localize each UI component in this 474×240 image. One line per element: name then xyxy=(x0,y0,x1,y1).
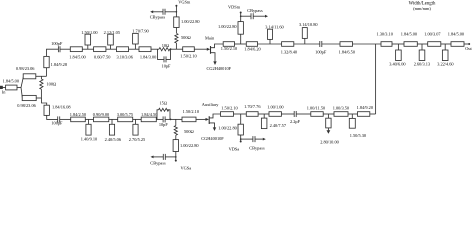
TL TL15 1.84/6.50 xyxy=(339,42,355,55)
wire TL11 to TL13 (VDSm node) xyxy=(235,43,247,45)
capacitor C3 CBypass (VGSm) xyxy=(150,9,178,20)
TL TL31 1.00/11.50 xyxy=(307,106,325,117)
svg-text:1.30/3.10: 1.30/3.10 xyxy=(376,31,392,36)
wire TL25 to Q2 gate xyxy=(196,118,206,120)
TL TL33 1.84/9.20 xyxy=(357,105,373,116)
svg-text:2.80/10.00: 2.80/10.00 xyxy=(320,139,339,144)
wire TL12 up to VDSm terminal xyxy=(240,13,242,22)
svg-text:1.70/7.90: 1.70/7.90 xyxy=(132,29,148,34)
svg-text:10pF: 10pF xyxy=(162,63,172,68)
svg-text:1.00/22.80: 1.00/22.80 xyxy=(180,143,199,148)
wire lower splitter jog to TL20 xyxy=(42,98,47,105)
TL TL2 0.98/23.06 (upper splitter arm) xyxy=(16,66,36,79)
wire TL13 to TL14 xyxy=(258,43,282,45)
svg-text:1.84/2.50: 1.84/2.50 xyxy=(70,112,86,117)
junction node gate aux xyxy=(170,119,172,121)
TL TL12 1.00/22.80 (main drain bias, vertical) xyxy=(218,22,243,44)
wire TL19 to Out xyxy=(464,43,469,45)
capacitor C6 100pF (aux input DC block) xyxy=(51,116,63,125)
svg-text:CGH40010F: CGH40010F xyxy=(201,136,224,141)
wire TL24 to RC2 xyxy=(155,118,158,120)
svg-text:CG2H40010F: CG2H40010F xyxy=(206,66,231,71)
svg-text:0.98/23.06: 0.98/23.06 xyxy=(17,103,36,108)
svg-text:1.50/2.10: 1.50/2.10 xyxy=(180,54,196,59)
wire TL21 to TL22 xyxy=(85,118,93,120)
capacitor C1 100pF (main input DC block) xyxy=(51,41,63,52)
wire TL28 down to VDSa terminal xyxy=(240,135,242,142)
wire TL33 to combining riser xyxy=(370,113,376,115)
svg-text:100pF: 100pF xyxy=(51,41,63,46)
svg-text:Auxiliary: Auxiliary xyxy=(202,102,219,107)
wire TL17 to TL18 xyxy=(417,43,427,45)
resistor R4 15ohm (parallel loop above aux line) xyxy=(157,100,170,119)
svg-text:VDSm: VDSm xyxy=(228,4,241,9)
wire TL8 to RC network xyxy=(151,48,159,50)
svg-text:2.70/5.25: 2.70/5.25 xyxy=(129,137,145,142)
TL TL20 1.84/16.08 (vertical) xyxy=(44,104,71,115)
svg-text:Out: Out xyxy=(465,46,472,51)
TL TL17 1.84/5.00 xyxy=(401,31,418,46)
TL TL13 1.84/6.20 xyxy=(244,42,260,52)
svg-text:CBypass: CBypass xyxy=(150,161,166,166)
TL TL11 1.50/2.10 (main drain) xyxy=(221,42,237,52)
svg-text:1.50/2.10: 1.50/2.10 xyxy=(221,106,237,111)
svg-text:1.84/6.50: 1.84/6.50 xyxy=(339,50,355,55)
wire TL30 to C10 xyxy=(281,113,294,115)
wire TL1 to split node xyxy=(17,87,21,89)
wire TL6 to TL7 xyxy=(106,48,117,50)
node VDSa terminal xyxy=(229,141,242,152)
wire C1 to TL5 xyxy=(60,48,70,50)
svg-text:3.14/11.60: 3.14/11.60 xyxy=(265,24,283,29)
resistor R1 100ohm isolation xyxy=(40,76,56,98)
svg-text:100pF: 100pF xyxy=(315,50,327,55)
wire TL9 to Q1 gate xyxy=(194,48,207,50)
svg-text:VGSm: VGSm xyxy=(178,0,191,4)
TL TL29 1.70/7.76 xyxy=(244,104,261,116)
port In xyxy=(0,86,6,94)
capacitor C10 2.2pF xyxy=(290,111,301,124)
svg-text:2.40/5.06: 2.40/5.06 xyxy=(105,137,122,142)
svg-text:2.40/7.57: 2.40/7.57 xyxy=(270,123,287,128)
svg-text:VDSa: VDSa xyxy=(229,146,240,151)
svg-text:3.14/10.80: 3.14/10.80 xyxy=(299,22,318,27)
TL TL27 1.50/2.10 (aux drain) xyxy=(221,106,238,117)
capacitor C4 CBypass (VDSm) xyxy=(240,8,268,19)
TL TL4 1.84/9.28 (vertical) xyxy=(44,56,67,67)
svg-text:0.90/9.00: 0.90/9.00 xyxy=(93,112,109,117)
TL TL24 1.84/4.50 xyxy=(141,112,157,122)
wire TL16 to TL17 xyxy=(392,43,404,45)
svg-text:1.32/8.40: 1.32/8.40 xyxy=(281,50,297,55)
wire node to TL9 xyxy=(171,48,183,50)
TL stub ST1 1.50/1.00 (shunt up) xyxy=(81,30,97,49)
wire TL23 to TL24 xyxy=(133,118,142,120)
TL TL3 0.98/23.06 (lower splitter arm) xyxy=(17,95,36,108)
svg-text:500Ω: 500Ω xyxy=(184,129,194,134)
svg-text:2.60/3.13: 2.60/3.13 xyxy=(414,62,430,67)
TL stub ST9 1.40/9.10 (shunt down) xyxy=(81,119,97,141)
svg-text:1.84/5.00: 1.84/5.00 xyxy=(401,31,417,36)
svg-text:100Ω: 100Ω xyxy=(47,82,57,87)
svg-text:1.00/22.80: 1.00/22.80 xyxy=(218,24,237,29)
svg-text:2.2pF: 2.2pF xyxy=(290,119,301,124)
wire split diagonal lower xyxy=(21,88,22,99)
wire C10 to TL31 xyxy=(296,113,311,115)
svg-text:1.84/6.20: 1.84/6.20 xyxy=(244,46,260,51)
svg-text:1.84/4.50: 1.84/4.50 xyxy=(141,112,157,117)
svg-text:1.84/16.08: 1.84/16.08 xyxy=(52,104,71,109)
svg-text:1.50/2.10: 1.50/2.10 xyxy=(221,46,237,51)
TL stub ST6 3.40/6.00 (shunt down) xyxy=(389,44,405,67)
svg-text:1.00/11.50: 1.00/11.50 xyxy=(307,106,325,111)
TL TL8 1.84/3.00 xyxy=(139,47,156,60)
svg-text:1.00/22.80: 1.00/22.80 xyxy=(218,125,237,130)
TL TL18 1.00/3.07 xyxy=(424,31,441,46)
title Width/Length (mm/mm) xyxy=(409,1,436,11)
capacitor C9 CBypass (VDSa) xyxy=(240,136,266,151)
svg-text:3.00/5.75: 3.00/5.75 xyxy=(117,112,133,117)
wire lower arm to corner xyxy=(36,97,41,99)
resistor R3 500ohm (main gate bias) xyxy=(175,28,191,50)
svg-text:15Ω: 15Ω xyxy=(160,100,168,105)
wire TL26 down to VGSa terminal xyxy=(175,152,177,161)
svg-text:1.50/2.10: 1.50/2.10 xyxy=(183,109,199,114)
node VGSm terminal xyxy=(175,0,190,7)
TL TL5 1.84/5.00 xyxy=(69,47,85,60)
svg-text:In: In xyxy=(2,90,6,95)
svg-text:3.40/6.00: 3.40/6.00 xyxy=(389,62,405,67)
transistor Q1 CGH40010F Main xyxy=(205,35,232,71)
node VDSm terminal xyxy=(228,4,242,13)
svg-text:1.84/9.28: 1.84/9.28 xyxy=(51,62,67,67)
TL TL10 1.00/22.80 (main gate bias line, vertical) xyxy=(174,17,200,28)
TL stub ST7 2.60/3.13 (shunt down) xyxy=(414,44,430,67)
svg-text:CBypass: CBypass xyxy=(150,15,166,20)
svg-text:1.84/3.00: 1.84/3.00 xyxy=(140,54,156,59)
svg-text:CBypass: CBypass xyxy=(249,146,265,151)
svg-text:CBypass: CBypass xyxy=(247,8,263,13)
wire TL18 to TL19 xyxy=(441,43,451,45)
TL stub ST2 2.12/1.05 (shunt up) xyxy=(104,30,120,49)
svg-text:3.10/3.06: 3.10/3.06 xyxy=(116,54,133,59)
svg-text:1.70/7.76: 1.70/7.76 xyxy=(244,104,261,109)
wire TL22 to TL23 xyxy=(109,118,118,120)
wire TL20 to aux line xyxy=(47,115,58,119)
resistor R2 10ohm (parallel RC, series in gate line) xyxy=(159,43,170,51)
wire node to TL25 xyxy=(171,118,183,120)
wire TL27 to TL29 (VDSa node) xyxy=(234,113,247,115)
TL stub ST13 2.80/10.00 (shunt down with via arrow) xyxy=(320,114,339,144)
svg-text:1.50/5.30: 1.50/5.30 xyxy=(350,133,366,138)
TL stub ST3 1.70/7.90 (shunt up) xyxy=(132,29,148,50)
TL TL14 1.32/8.40 xyxy=(281,42,297,55)
svg-text:1.84/5.00: 1.84/5.00 xyxy=(69,54,85,59)
wire C6 to TL21 xyxy=(60,118,71,120)
svg-text:1.40/9.10: 1.40/9.10 xyxy=(81,137,97,142)
transistor Q2 CGH40010F Auxiliary xyxy=(201,102,224,141)
svg-text:1.00/3.50: 1.00/3.50 xyxy=(333,105,349,110)
wire TL15 to combine junction xyxy=(353,43,382,45)
svg-text:10Ω: 10Ω xyxy=(162,43,170,48)
TL TL7 3.10/3.06 xyxy=(116,47,133,60)
TL TL22 0.90/9.00 xyxy=(93,112,109,122)
svg-text:1.84/5.00: 1.84/5.00 xyxy=(448,31,464,36)
TL TL30 1.00/1.00 xyxy=(267,104,283,116)
wire TL5 to TL6 xyxy=(82,48,93,50)
wire TL32 to TL33 xyxy=(348,113,358,115)
wire split diagonal upper xyxy=(21,76,24,87)
svg-text:VGSa: VGSa xyxy=(181,166,192,171)
svg-text:2.12/1.05: 2.12/1.05 xyxy=(104,30,120,35)
resistor R5 500ohm (aux gate bias) xyxy=(174,119,194,139)
svg-text:100pF: 100pF xyxy=(51,120,63,125)
wire riser up to TL4 xyxy=(46,68,48,77)
wire TL4 to top line xyxy=(47,49,59,56)
svg-text:1.00/1.00: 1.00/1.00 xyxy=(267,104,283,109)
capacitor C7 10pF (aux line, parallel with R4) xyxy=(157,116,170,127)
node VGSa terminal xyxy=(175,160,191,171)
wire port to TL1 xyxy=(2,87,5,89)
TL TL26 1.00/22.80 (aux gate bias, vertical) xyxy=(173,140,198,152)
TL TL28 1.00/22.80 (aux drain bias, vertical) xyxy=(218,114,243,135)
capacitor C8 CBypass (VGSa) xyxy=(150,154,176,166)
TL TL9 1.50/2.10 (main gate) xyxy=(180,47,196,59)
svg-text:1.84/5.00: 1.84/5.00 xyxy=(3,79,19,84)
wire upper arm to riser xyxy=(36,75,47,77)
svg-text:0.98/23.06: 0.98/23.06 xyxy=(16,66,35,71)
svg-text:1.00/3.07: 1.00/3.07 xyxy=(424,31,441,36)
svg-text:(mm/mm): (mm/mm) xyxy=(413,6,431,11)
TL TL32 1.00/3.50 xyxy=(333,105,349,116)
TL TL23 3.00/5.75 xyxy=(117,112,133,122)
wire TL7 to TL8 xyxy=(129,48,140,50)
svg-text:500Ω: 500Ω xyxy=(181,35,191,40)
wire TL31 to TL32 xyxy=(323,113,334,115)
TL stub ST5 3.14/10.80 (shunt up) xyxy=(299,22,318,44)
TL TL1 1.84/5.00 (input) xyxy=(3,79,19,90)
wire combining riser (aux joins main) xyxy=(375,44,377,114)
TL TL16 1.30/3.10 xyxy=(376,31,392,46)
TL stub ST10 2.40/5.06 (shunt down) xyxy=(105,119,122,141)
capacitor C2 10pF (parallel with R2) xyxy=(158,49,172,68)
svg-text:Main: Main xyxy=(205,35,215,40)
svg-text:10pF: 10pF xyxy=(159,122,169,127)
TL stub ST12 2.40/7.57 (shunt down) xyxy=(261,114,286,129)
svg-text:1.00/22.80: 1.00/22.80 xyxy=(181,19,200,24)
svg-text:1.50/1.00: 1.50/1.00 xyxy=(81,30,97,35)
TL stub ST11 2.70/5.25 (shunt down) xyxy=(129,119,145,141)
TL TL19 1.84/5.00 xyxy=(448,31,464,46)
TL TL25 1.50/2.10 (aux gate) xyxy=(182,109,199,122)
capacitor C5 100pF (main output DC block) xyxy=(315,41,327,55)
TL stub ST8 3.22/4.60 (shunt down) xyxy=(437,44,453,67)
TL stub ST14 1.50/5.30 (shunt down) xyxy=(349,114,366,138)
svg-text:0.60/7.50: 0.60/7.50 xyxy=(94,54,110,59)
junction node gate main xyxy=(170,48,172,50)
svg-text:3.22/4.60: 3.22/4.60 xyxy=(437,62,453,67)
TL stub ST4 3.14/11.60 (shunt up) xyxy=(265,24,283,44)
svg-text:1.84/9.20: 1.84/9.20 xyxy=(357,105,373,110)
TL TL21 1.84/2.50 xyxy=(70,112,86,122)
wire C5 to TL15 xyxy=(322,43,340,45)
TL TL6 0.60/7.50 xyxy=(94,47,111,60)
wire TL29 to TL30 xyxy=(258,113,269,115)
wire TL14 to C5 xyxy=(294,43,320,45)
wire TL10 up to VGSm terminal xyxy=(175,6,177,17)
